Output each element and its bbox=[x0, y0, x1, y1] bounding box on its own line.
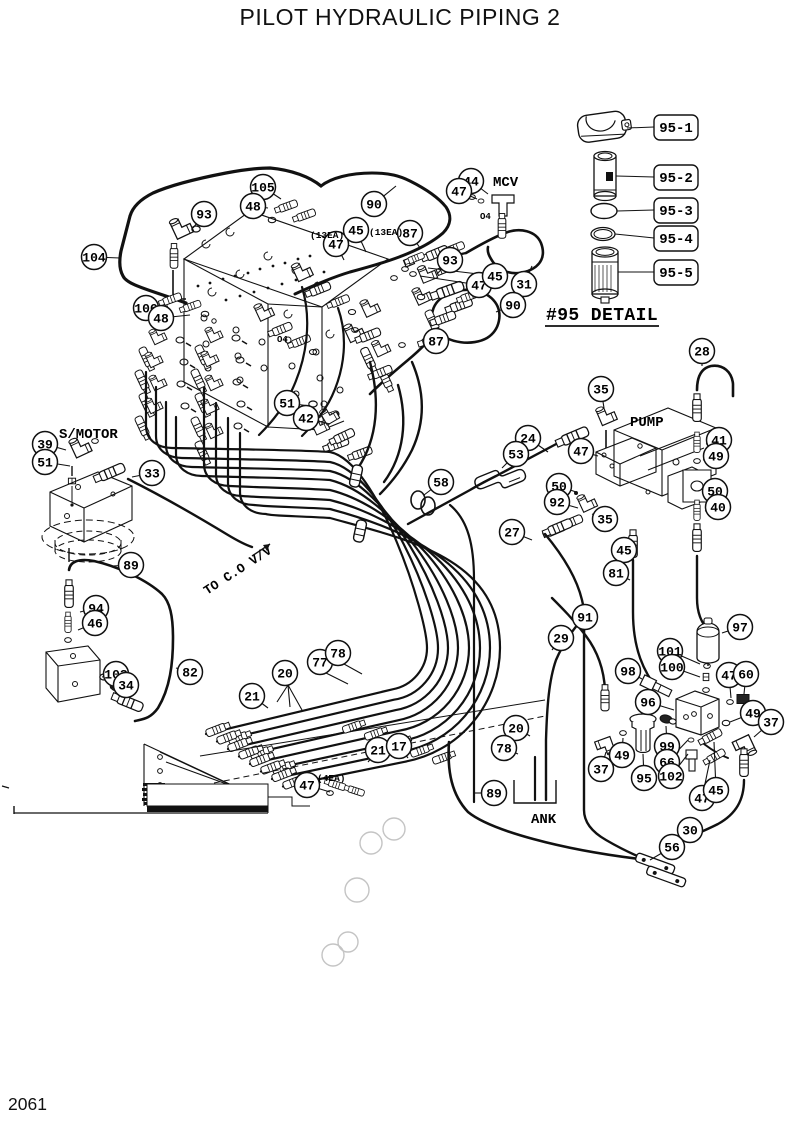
svg-text:87: 87 bbox=[428, 335, 444, 350]
svg-text:20: 20 bbox=[277, 667, 293, 682]
svg-text:45: 45 bbox=[616, 544, 632, 559]
svg-text:81: 81 bbox=[608, 567, 624, 582]
svg-text:27: 27 bbox=[504, 526, 520, 541]
svg-text:48: 48 bbox=[153, 312, 169, 327]
svg-text:100: 100 bbox=[660, 661, 684, 676]
svg-text:97: 97 bbox=[732, 621, 748, 636]
svg-text:95-5: 95-5 bbox=[659, 266, 693, 282]
svg-text:34: 34 bbox=[118, 679, 134, 694]
svg-text:46: 46 bbox=[87, 617, 103, 632]
svg-text:82: 82 bbox=[182, 666, 198, 681]
svg-text:TO C.O V/V: TO C.O V/V bbox=[201, 543, 275, 598]
svg-text:56: 56 bbox=[664, 841, 680, 856]
svg-text:(4EA): (4EA) bbox=[317, 773, 346, 784]
svg-text:90: 90 bbox=[366, 198, 382, 213]
svg-text:49: 49 bbox=[614, 749, 630, 764]
svg-text:102: 102 bbox=[659, 770, 683, 785]
svg-text:95-3: 95-3 bbox=[659, 204, 693, 220]
svg-text:78: 78 bbox=[496, 742, 512, 757]
svg-text:58: 58 bbox=[433, 476, 449, 491]
svg-text:91: 91 bbox=[577, 611, 593, 626]
svg-text:89: 89 bbox=[486, 787, 502, 802]
svg-text:#95 DETAIL: #95 DETAIL bbox=[546, 306, 658, 326]
svg-text:93: 93 bbox=[196, 208, 212, 223]
svg-text:60: 60 bbox=[738, 668, 754, 683]
svg-text:93: 93 bbox=[442, 254, 458, 269]
svg-text:87: 87 bbox=[402, 227, 418, 242]
svg-text:49: 49 bbox=[708, 450, 724, 465]
svg-text:95: 95 bbox=[636, 772, 652, 787]
svg-text:ANK: ANK bbox=[531, 812, 557, 828]
svg-text:89: 89 bbox=[123, 559, 139, 574]
svg-text:29: 29 bbox=[553, 632, 569, 647]
svg-text:O4: O4 bbox=[480, 212, 491, 222]
svg-text:77: 77 bbox=[312, 656, 328, 671]
svg-text:21: 21 bbox=[244, 690, 260, 705]
svg-text:30: 30 bbox=[682, 824, 698, 839]
svg-text:90: 90 bbox=[505, 299, 521, 314]
svg-text:104: 104 bbox=[82, 251, 106, 266]
svg-text:21: 21 bbox=[370, 744, 386, 759]
svg-text:45: 45 bbox=[348, 224, 364, 239]
svg-text:95-4: 95-4 bbox=[659, 232, 693, 248]
svg-text:95-1: 95-1 bbox=[659, 121, 693, 137]
svg-text:98: 98 bbox=[620, 665, 636, 680]
svg-text:47: 47 bbox=[573, 445, 589, 460]
svg-text:53: 53 bbox=[508, 448, 524, 463]
svg-text:96: 96 bbox=[640, 696, 656, 711]
svg-text:48: 48 bbox=[245, 200, 261, 215]
svg-text:51: 51 bbox=[279, 397, 295, 412]
svg-text:47: 47 bbox=[299, 779, 315, 794]
svg-text:35: 35 bbox=[597, 513, 613, 528]
svg-text:PUMP: PUMP bbox=[630, 415, 664, 431]
svg-text:S/MOTOR: S/MOTOR bbox=[59, 427, 118, 443]
svg-text:MCV: MCV bbox=[493, 175, 519, 191]
svg-text:45: 45 bbox=[487, 270, 503, 285]
svg-text:O4: O4 bbox=[277, 335, 288, 345]
svg-text:31: 31 bbox=[516, 278, 532, 293]
svg-text:35: 35 bbox=[593, 383, 609, 398]
svg-text:40: 40 bbox=[710, 501, 726, 516]
svg-text:(13EA): (13EA) bbox=[310, 230, 344, 241]
svg-text:17: 17 bbox=[391, 740, 407, 755]
svg-text:33: 33 bbox=[144, 467, 160, 482]
svg-text:47: 47 bbox=[451, 185, 467, 200]
svg-text:95-2: 95-2 bbox=[659, 171, 693, 187]
svg-text:51: 51 bbox=[37, 456, 53, 471]
svg-text:78: 78 bbox=[330, 647, 346, 662]
svg-text:92: 92 bbox=[549, 496, 565, 511]
svg-text:20: 20 bbox=[508, 722, 524, 737]
svg-text:37: 37 bbox=[593, 763, 609, 778]
svg-text:(13EA): (13EA) bbox=[369, 227, 403, 238]
svg-text:42: 42 bbox=[298, 412, 314, 427]
svg-text:28: 28 bbox=[694, 345, 710, 360]
svg-text:37: 37 bbox=[763, 716, 779, 731]
svg-text:45: 45 bbox=[708, 784, 724, 799]
